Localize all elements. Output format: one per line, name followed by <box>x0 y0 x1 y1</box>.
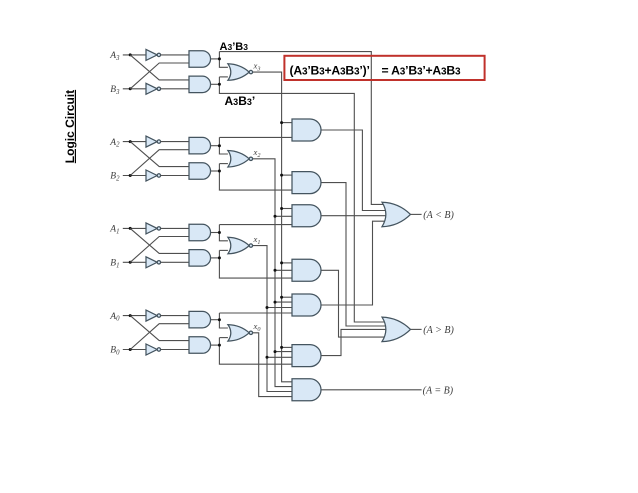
node B1 junction <box>129 261 132 264</box>
node A3'B3 junction <box>218 57 221 60</box>
node A2'B2 junction <box>218 144 221 147</box>
nodes x2 taps <box>274 215 277 353</box>
NOR gate U3 output x3 <box>228 64 253 81</box>
svg-text:Logic Circuit: Logic Circuit <box>63 90 77 163</box>
inverter A1 <box>146 223 157 234</box>
AND gate A3B3' <box>189 76 211 93</box>
AND gate M2 x3·A2B2' <box>292 172 321 194</box>
node B2 junction <box>129 174 132 177</box>
NOR gate U2 output x2 <box>228 151 253 168</box>
wire B1' to AND <box>161 261 189 263</box>
wire x3 net <box>253 72 292 382</box>
wire output of M2 <box>321 183 388 326</box>
wire output of M3 <box>321 215 388 217</box>
NOR gate U1 output x1 <box>228 237 253 254</box>
wire A0B0' net <box>211 338 292 365</box>
node A0 junction <box>129 314 132 317</box>
wire output of M5 <box>321 221 388 305</box>
wire B2' to AND <box>161 175 189 177</box>
inverter A3 <box>146 49 157 60</box>
node A3B3' junction <box>218 83 221 86</box>
wire B3 cross to upper AND <box>130 63 189 89</box>
svg-text:= A3’B3’+A3B3: = A3’B3’+A3B3 <box>382 63 462 77</box>
node A0'B0 junction <box>218 318 221 321</box>
AND gate M1 x3·A2'B2 <box>292 119 321 141</box>
node A1 junction <box>129 227 132 230</box>
wire x2 net <box>253 159 292 387</box>
inverter B0 <box>146 344 157 355</box>
wire B2 cross to upper AND <box>130 150 189 176</box>
wire A3B3' net <box>211 77 388 322</box>
inverter A2 <box>146 136 157 147</box>
svg-text:(A > B): (A > B) <box>423 325 454 336</box>
red highlight box <box>284 56 484 80</box>
wire output of M7 <box>321 389 422 391</box>
AND gate A2B2' <box>189 163 211 180</box>
AND gate M6 x3x2x1·A0B0' <box>292 345 321 367</box>
wire A3'B3 net <box>211 52 388 205</box>
wire output of M1 <box>321 130 388 211</box>
wire A0'B0 net <box>211 313 292 328</box>
wire A1B1' net <box>211 250 292 278</box>
wire A2B2' net <box>211 164 292 191</box>
AND gate A0'B0 <box>189 311 211 328</box>
wire input B0 <box>123 349 146 351</box>
wire B0' to AND <box>161 349 189 351</box>
wire input B3 <box>123 88 146 90</box>
node A2 junction <box>129 140 132 143</box>
node B0 junction <box>129 348 132 351</box>
svg-text:A3’B3: A3’B3 <box>220 41 249 53</box>
wire input A3 <box>123 54 146 56</box>
node A1'B1 junction <box>218 231 221 234</box>
wire input A1 <box>123 227 146 229</box>
wire A1' to AND <box>161 227 189 229</box>
wire input B1 <box>123 261 146 263</box>
wire A0 cross to lower AND <box>130 316 189 341</box>
node A0B0' junction <box>218 344 221 347</box>
wire A0' to AND <box>161 315 189 317</box>
nodes x1 taps <box>266 306 269 359</box>
nodes x0 taps <box>0 0 1 1</box>
wire B1 cross to upper AND <box>130 237 189 263</box>
inverter B3 <box>146 83 157 94</box>
wire output of M6 <box>321 329 388 355</box>
wire A3 cross to lower AND <box>130 55 189 80</box>
wire A3' to AND <box>161 54 189 56</box>
AND gate A2'B2 <box>189 137 211 154</box>
node A1B1' junction <box>218 256 221 259</box>
wire x0 net <box>253 333 292 397</box>
AND gate M4 x3x2·A1B1' <box>292 259 321 281</box>
OR gate (A>B) <box>382 317 411 342</box>
svg-text:(A = B): (A = B) <box>423 385 454 396</box>
node B3 junction <box>129 87 132 90</box>
wire A1'B1 net <box>211 225 292 241</box>
wire x1 net <box>253 246 292 392</box>
svg-text:(A3’B3+A3B3’)’: (A3’B3+A3B3’)’ <box>290 63 370 77</box>
inverter B1 <box>146 257 157 268</box>
inverter B2 <box>146 170 157 181</box>
nodes x3 taps <box>280 121 283 349</box>
wire A2' to AND <box>161 141 189 143</box>
AND gate M7 x3x2x1x0 (A=B) <box>292 379 321 401</box>
node A2B2' junction <box>218 170 221 173</box>
AND gate M5 x3x2x1·A0'B0 <box>292 294 321 316</box>
AND gate A1'B1 <box>189 224 211 241</box>
wire A2'B2 net <box>211 137 292 154</box>
wire output of M4 <box>321 270 388 337</box>
AND gate A0B0' <box>189 337 211 354</box>
AND gate A3'B3 <box>189 51 211 67</box>
wire A2 cross to lower AND <box>130 142 189 167</box>
AND gate A1B1' <box>189 250 211 267</box>
OR gate (A<B) <box>382 202 411 227</box>
inverter A0 <box>146 310 157 321</box>
wire B0 cross to upper AND <box>130 324 189 350</box>
wire input A2 <box>123 141 146 143</box>
node A3 junction <box>129 53 132 56</box>
wire A1 cross to lower AND <box>130 228 189 253</box>
wire (A>B) output <box>411 328 422 330</box>
svg-text:A3B3’: A3B3’ <box>225 94 256 108</box>
wire input A0 <box>123 315 146 317</box>
NOR gate U0 output x0 <box>228 325 253 342</box>
svg-text:(A < B): (A < B) <box>423 210 454 221</box>
wire input B2 <box>123 175 146 177</box>
AND gate M3 x3x2·A1'B1 <box>292 205 321 227</box>
wire (A<B) output <box>411 213 422 215</box>
wire B3' to AND <box>161 88 189 90</box>
